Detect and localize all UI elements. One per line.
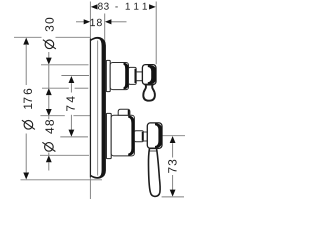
thermostat hub	[134, 131, 143, 142]
dimension 18	[76, 19, 127, 27]
shutoff valve sleeve body (top)	[110, 63, 128, 90]
shutoff stem	[136, 72, 142, 81]
wire extension line wall plane x=90.4	[89, 2, 91, 200]
plate front dark rim band	[91, 37, 106, 179]
thermostat sleeve body (bottom)	[111, 115, 134, 156]
wire extension line plate front x=104.7	[104, 14, 106, 45]
lever grip	[148, 148, 160, 196]
plate surface line	[97, 41, 99, 176]
dimension 83-111 top	[91, 3, 156, 10]
cross handle knob	[142, 65, 156, 85]
lever stem	[143, 132, 147, 141]
shutoff hub	[129, 67, 137, 84]
lever hub	[147, 123, 162, 148]
escutcheon plate side profile	[90, 36, 106, 179]
shutoff valve sleeve flange (top)	[106, 60, 110, 91]
thermostat sleeve flange (bottom)	[106, 113, 111, 158]
plate left edge dark	[89, 39, 91, 178]
dimension O176 left	[14, 37, 102, 180]
shutoff sleeve dark front band	[124, 63, 129, 90]
dimension 74	[60, 76, 89, 137]
dimension O48	[40, 109, 90, 171]
dimension O30	[41, 18, 89, 155]
lever grip ferrule line	[149, 150, 157, 152]
dimension 73 right	[162, 136, 185, 197]
safety stop button	[118, 109, 130, 115]
wire extension line handle front x=156.2	[155, 2, 157, 65]
cross handle lower arm teardrop	[143, 85, 155, 101]
thermostat sleeve dark front band	[128, 116, 134, 156]
